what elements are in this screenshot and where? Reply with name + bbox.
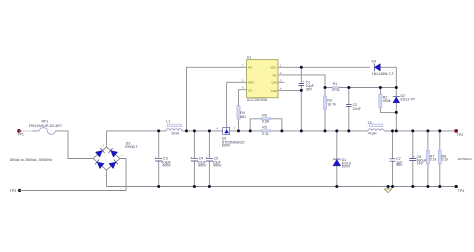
pin VDD <box>278 66 285 68</box>
svg-text:RH06-T: RH06-T <box>125 145 138 149</box>
pin HV <box>240 66 247 68</box>
svg-text:22nF: 22nF <box>353 107 362 111</box>
wire AC line to bridge <box>68 131 93 159</box>
svg-text:FKN1WSJR-52-4R7: FKN1WSJR-52-4R7 <box>29 124 62 128</box>
diode D3c bottom-left <box>95 159 104 168</box>
wire AC neutral to bridge <box>20 159 126 191</box>
node TP1 terminal <box>17 129 24 136</box>
svg-text:U1: U1 <box>247 56 252 60</box>
node TP2 terminal <box>454 129 463 137</box>
wire ground rail <box>107 186 457 188</box>
node main rail junctions <box>157 129 160 132</box>
pin CS <box>240 89 247 91</box>
transistor Q1 <box>217 82 246 147</box>
capacitor C7 <box>390 131 404 187</box>
svg-text:R6: R6 <box>262 113 267 117</box>
diode D3a top-left <box>95 148 104 157</box>
svg-text:85Vac to 265Vac, 50/60Hz: 85Vac to 265Vac, 50/60Hz <box>10 158 52 162</box>
resistor R3 <box>323 88 336 131</box>
op-amp U1 controller UCC28700 <box>240 56 285 102</box>
svg-text:600V: 600V <box>222 143 231 147</box>
svg-text:681: 681 <box>240 115 246 119</box>
node TP3 terminal <box>10 189 22 193</box>
svg-text:D4: D4 <box>372 59 377 63</box>
capacitor C2 <box>346 88 362 131</box>
diode D3d bottom-right <box>109 159 118 168</box>
wire feedback line <box>325 87 396 89</box>
capacitor C1 <box>299 67 315 131</box>
pin CBC <box>278 81 285 83</box>
wire HV net <box>187 67 241 131</box>
svg-text:TP2: TP2 <box>457 133 464 137</box>
node VDD and feedback junctions <box>300 66 303 69</box>
pin GND <box>278 89 285 91</box>
wire VS net <box>285 75 326 88</box>
inductor L2 <box>368 120 384 135</box>
resistor R1 <box>332 82 340 92</box>
wire VDD net <box>285 67 397 87</box>
resistor R7 <box>426 131 436 187</box>
resistor R4 <box>237 90 246 131</box>
svg-text:+: + <box>205 156 207 160</box>
svg-text:0.11: 0.11 <box>262 132 269 136</box>
fuse RF1 <box>19 120 68 135</box>
svg-text:TP4: TP4 <box>458 189 465 193</box>
resistor R6 <box>250 113 282 130</box>
svg-text:UCC28700D: UCC28700D <box>247 98 268 102</box>
wire DRV net <box>227 81 240 83</box>
svg-text:+: + <box>190 156 192 160</box>
svg-text:+: + <box>155 156 157 160</box>
capacitor C5 <box>205 131 222 187</box>
svg-text:5.1k: 5.1k <box>430 157 437 161</box>
svg-text:FB: FB <box>273 73 277 77</box>
bridge rectifier D3 <box>89 141 139 177</box>
svg-text:0.68: 0.68 <box>262 120 269 124</box>
svg-text:400V: 400V <box>213 164 222 168</box>
ground <box>384 187 392 193</box>
svg-text:16.7k: 16.7k <box>327 102 336 106</box>
capacitor C8 <box>409 131 427 187</box>
pin DRV <box>240 81 247 83</box>
resistor R5 <box>262 125 271 135</box>
svg-text:R1: R1 <box>333 82 338 86</box>
diode D1 <box>333 131 352 187</box>
svg-text:HV: HV <box>248 66 252 70</box>
svg-text:35V: 35V <box>306 88 313 92</box>
svg-text:5mH: 5mH <box>172 132 180 136</box>
svg-text:L1: L1 <box>166 119 170 123</box>
svg-text:GND: GND <box>271 89 277 93</box>
node ground rail junctions <box>157 185 160 188</box>
svg-text:5.1k: 5.1k <box>442 157 449 161</box>
svg-text:+: + <box>413 155 415 159</box>
capacitor C4 <box>190 131 207 187</box>
node TP4 terminal <box>455 185 464 193</box>
svg-text:CBC: CBC <box>271 81 277 85</box>
svg-text:400V: 400V <box>162 164 171 168</box>
svg-text:400V: 400V <box>198 164 207 168</box>
inductor L1 <box>166 119 182 135</box>
svg-text:600V: 600V <box>342 165 351 169</box>
svg-text:L2: L2 <box>368 120 372 124</box>
svg-text:R5: R5 <box>262 125 267 129</box>
resistor R8 <box>438 131 448 187</box>
svg-text:+: + <box>303 80 305 84</box>
svg-text:-: - <box>104 174 105 177</box>
diode D4 <box>372 59 394 76</box>
svg-text:ES1J-TP: ES1J-TP <box>401 98 416 102</box>
wire bridge plus to main rail <box>106 131 108 147</box>
svg-text:27.4k: 27.4k <box>332 88 340 92</box>
svg-text:1N4148W-7-F: 1N4148W-7-F <box>372 72 394 76</box>
pin VS <box>278 74 285 76</box>
svg-text:TP1: TP1 <box>17 132 24 136</box>
svg-text:12V/500mA: 12V/500mA <box>457 157 472 161</box>
wire GND pin to C1 <box>285 89 302 91</box>
wire bridge minus to ground rail <box>106 170 108 187</box>
svg-text:CS: CS <box>248 89 252 93</box>
svg-text:47µH: 47µH <box>368 131 377 135</box>
svg-text:453k: 453k <box>383 99 391 103</box>
svg-text:50V: 50V <box>396 163 403 167</box>
svg-text:TP3: TP3 <box>10 189 17 193</box>
resistor R2 <box>379 88 397 113</box>
wire main rail <box>107 130 457 132</box>
diode D2 <box>393 88 416 131</box>
diode D3b top-right <box>108 148 117 157</box>
svg-text:VDD: VDD <box>270 66 276 70</box>
svg-text:16V: 16V <box>417 162 424 166</box>
svg-text:DRV: DRV <box>248 81 254 85</box>
capacitor C3 <box>155 131 172 187</box>
